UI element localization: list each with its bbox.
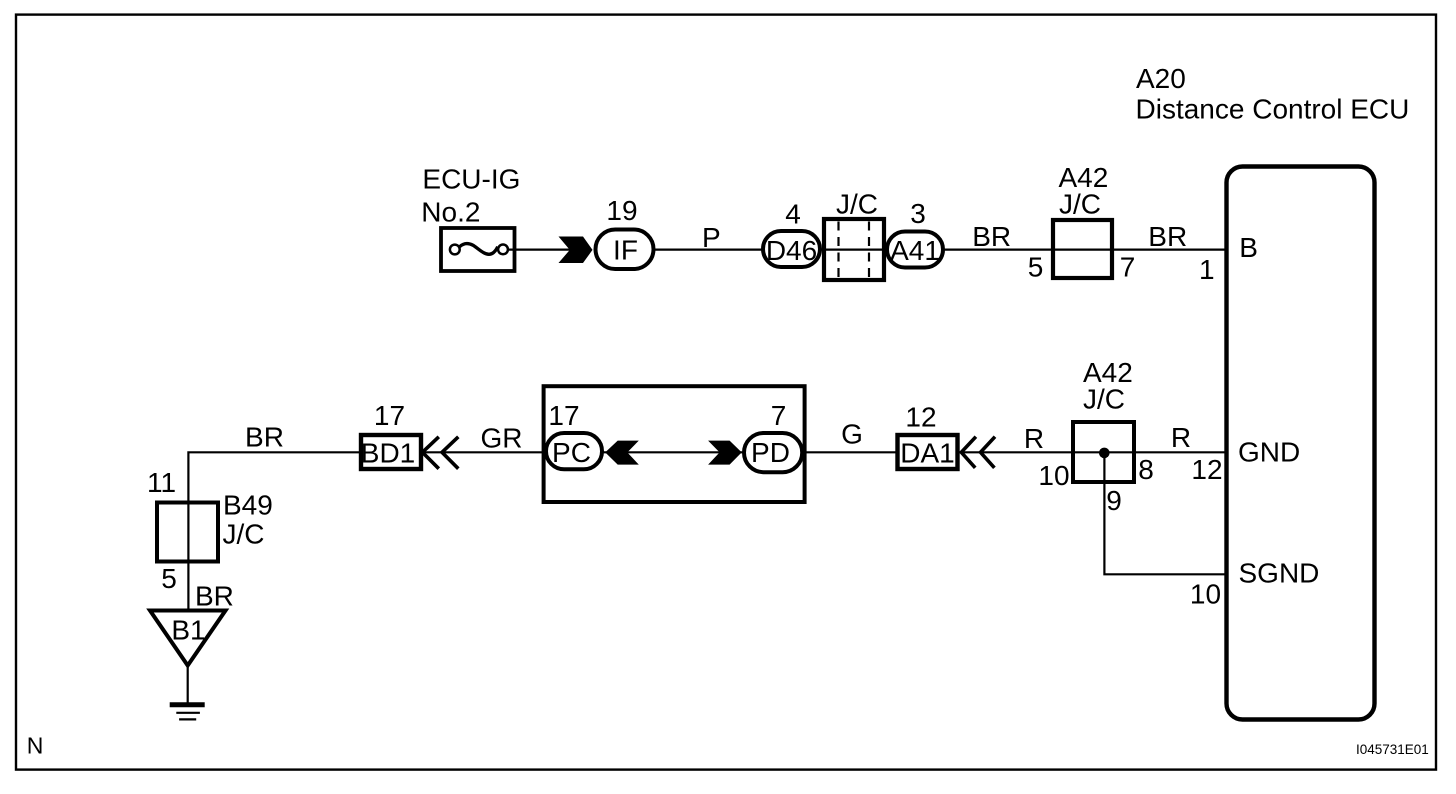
svg-text:D46: D46 — [766, 235, 817, 266]
connector PC — [546, 433, 602, 469]
svg-text:B: B — [1239, 232, 1258, 263]
connector PD — [744, 433, 802, 472]
svg-text:GR: GR — [481, 423, 523, 454]
svg-text:DA1: DA1 — [900, 438, 954, 469]
junction connector J/C (between D46 and A41) — [824, 219, 884, 280]
svg-text:B49: B49 — [223, 490, 273, 521]
svg-text:BR: BR — [245, 422, 284, 453]
svg-text:11: 11 — [147, 467, 176, 498]
junction connector A42 J/C (top) label — [1059, 162, 1109, 220]
ECU A20 title — [1136, 63, 1410, 125]
svg-text:5: 5 — [1028, 252, 1044, 283]
svg-text:J/C: J/C — [1059, 189, 1101, 220]
svg-text:17: 17 — [374, 400, 405, 431]
svg-text:7: 7 — [771, 400, 787, 431]
svg-text:J/C: J/C — [1083, 384, 1125, 415]
svg-text:19: 19 — [606, 195, 637, 226]
junction dot — [1099, 448, 1110, 459]
svg-text:A41: A41 — [890, 235, 940, 266]
wire PC to PD — [601, 451, 745, 453]
svg-text:BD1: BD1 — [361, 438, 415, 469]
connector A41 — [887, 232, 943, 268]
svg-text:R: R — [1024, 423, 1044, 454]
svg-text:5: 5 — [161, 563, 177, 594]
svg-text:7: 7 — [1120, 252, 1136, 283]
svg-text:PC: PC — [552, 437, 591, 468]
wire BD1 to PC, net GR — [420, 451, 547, 453]
wire IF to D46, net P — [652, 249, 764, 251]
svg-text:ECU-IG: ECU-IG — [422, 164, 520, 195]
svg-text:No.2: No.2 — [421, 197, 480, 228]
shield arrow marker (to PC) — [605, 441, 639, 465]
svg-text:Distance Control ECU: Distance Control ECU — [1136, 94, 1410, 125]
wire fuse to arrow — [507, 249, 570, 251]
svg-text:GND: GND — [1238, 437, 1300, 468]
wire ECU GND to A42 J/C, net R — [1072, 451, 1227, 453]
wire B1 to ground — [187, 666, 189, 704]
connector DA1 — [898, 435, 958, 469]
svg-text:P: P — [702, 222, 721, 253]
svg-text:SGND: SGND — [1239, 558, 1320, 589]
connector BD1 — [361, 435, 421, 469]
svg-text:BR: BR — [1148, 221, 1187, 252]
svg-text:10: 10 — [1038, 460, 1069, 491]
open chevrons at BD1 — [422, 437, 458, 469]
svg-text:12: 12 — [1191, 454, 1222, 485]
svg-text:17: 17 — [548, 400, 579, 431]
svg-text:4: 4 — [785, 199, 801, 230]
svg-text:B1: B1 — [171, 615, 205, 646]
svg-text:G: G — [841, 419, 863, 450]
svg-text:J/C: J/C — [223, 519, 265, 550]
ground point B1 — [150, 611, 226, 666]
shield arrow marker (to IF) — [559, 237, 593, 264]
wire BD1 to B49 corner, net BR — [188, 452, 362, 612]
wire DA1 to A42, net R — [956, 451, 1074, 453]
shield arrow marker (to PD) — [708, 441, 742, 465]
junction connector B49 J/C — [157, 503, 218, 562]
svg-text:10: 10 — [1190, 579, 1221, 610]
svg-text:12: 12 — [905, 402, 936, 433]
wire PD to DA1, net G — [802, 451, 899, 453]
fuse ECU-IG No.2 — [441, 228, 515, 271]
svg-text:8: 8 — [1138, 454, 1154, 485]
svg-text:IF: IF — [613, 235, 638, 266]
svg-text:R: R — [1171, 422, 1191, 453]
open chevrons at DA1 — [961, 437, 995, 468]
wire through J/C — [818, 249, 889, 251]
svg-text:A20: A20 — [1136, 63, 1186, 94]
svg-text:BR: BR — [195, 581, 234, 612]
junction connector A42 J/C (lower) — [1073, 422, 1134, 482]
junction connector A42 J/C (top) — [1053, 220, 1112, 278]
shielded pair box (PC/PD) — [544, 386, 805, 502]
junction connector B49 J/C label — [223, 490, 273, 550]
svg-text:3: 3 — [910, 198, 926, 229]
svg-text:BR: BR — [972, 221, 1011, 252]
svg-text:PD: PD — [751, 437, 790, 468]
svg-text:J/C: J/C — [836, 189, 878, 220]
connector IF — [596, 230, 654, 270]
wire A41 to ECU pin 1, net BR — [941, 249, 1227, 251]
svg-text:I045731E01: I045731E01 — [1356, 742, 1429, 757]
svg-text:1: 1 — [1199, 254, 1215, 285]
wire A42 pin 9 to ECU SGND — [1104, 453, 1227, 574]
ECU A20 connector box — [1227, 167, 1375, 720]
svg-text:9: 9 — [1106, 485, 1122, 516]
ground — [170, 705, 205, 720]
connector D46 — [763, 231, 820, 267]
svg-text:N: N — [27, 733, 44, 759]
junction connector A42 J/C (lower) label — [1083, 357, 1133, 415]
fuse ECU-IG No.2 label — [421, 164, 520, 228]
